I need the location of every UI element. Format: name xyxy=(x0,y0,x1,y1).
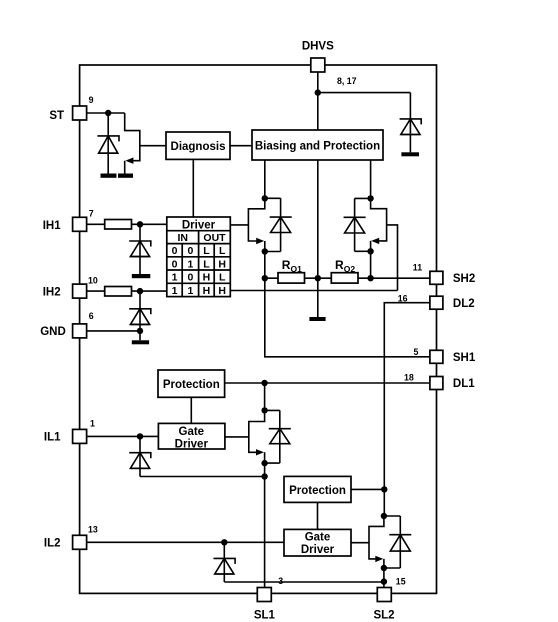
svg-text:1: 1 xyxy=(172,272,178,284)
svg-text:1: 1 xyxy=(187,285,193,297)
svg-text:10: 10 xyxy=(88,276,98,286)
svg-text:DL2: DL2 xyxy=(453,298,475,310)
svg-text:DL1: DL1 xyxy=(453,378,475,390)
svg-text:Driver: Driver xyxy=(301,544,335,556)
svg-text:IH2: IH2 xyxy=(43,286,61,298)
svg-text:IN: IN xyxy=(177,232,188,244)
svg-text:7: 7 xyxy=(89,209,94,219)
svg-text:Driver: Driver xyxy=(182,219,216,231)
svg-text:L: L xyxy=(203,258,210,270)
svg-text:3: 3 xyxy=(278,576,283,586)
svg-text:IL2: IL2 xyxy=(44,537,61,549)
svg-text:H: H xyxy=(203,272,211,284)
svg-text:0: 0 xyxy=(187,245,193,257)
svg-text:5: 5 xyxy=(414,347,419,357)
svg-text:1: 1 xyxy=(187,258,193,270)
svg-text:OUT: OUT xyxy=(203,232,226,244)
svg-text:18: 18 xyxy=(404,373,414,383)
svg-text:1: 1 xyxy=(172,285,178,297)
svg-text:0: 0 xyxy=(172,245,178,257)
svg-text:SH1: SH1 xyxy=(453,352,476,364)
svg-text:Diagnosis: Diagnosis xyxy=(171,141,226,153)
svg-text:ST: ST xyxy=(49,110,64,122)
svg-text:O2: O2 xyxy=(344,264,356,274)
svg-text:Driver: Driver xyxy=(175,438,209,450)
svg-text:SL2: SL2 xyxy=(373,610,394,622)
svg-text:L: L xyxy=(219,245,226,257)
svg-text:6: 6 xyxy=(89,311,94,321)
svg-text:R: R xyxy=(335,258,344,272)
svg-text:IL1: IL1 xyxy=(44,431,61,443)
svg-text:DHVS: DHVS xyxy=(302,41,334,53)
svg-text:Gate: Gate xyxy=(179,426,205,438)
svg-text:L: L xyxy=(203,245,210,257)
svg-text:Protection: Protection xyxy=(163,379,220,391)
svg-text:0: 0 xyxy=(187,272,193,284)
svg-text:1: 1 xyxy=(90,419,95,429)
svg-text:8, 17: 8, 17 xyxy=(337,76,357,86)
svg-text:L: L xyxy=(219,272,226,284)
svg-text:Biasing and Protection: Biasing and Protection xyxy=(255,141,380,153)
svg-text:15: 15 xyxy=(396,577,406,587)
svg-text:11: 11 xyxy=(413,262,422,272)
svg-text:SL1: SL1 xyxy=(254,610,276,622)
svg-text:O1: O1 xyxy=(291,264,303,274)
svg-text:R: R xyxy=(282,258,291,272)
svg-text:0: 0 xyxy=(172,258,178,270)
svg-text:16: 16 xyxy=(398,294,408,304)
svg-text:9: 9 xyxy=(89,95,94,105)
svg-text:IH1: IH1 xyxy=(43,220,62,232)
svg-text:13: 13 xyxy=(88,525,98,535)
svg-text:H: H xyxy=(218,285,226,297)
svg-text:H: H xyxy=(203,285,211,297)
svg-text:Gate: Gate xyxy=(305,532,331,544)
svg-text:GND: GND xyxy=(40,326,66,338)
svg-text:Protection: Protection xyxy=(289,485,346,497)
svg-text:H: H xyxy=(218,258,226,270)
svg-text:SH2: SH2 xyxy=(453,273,475,285)
